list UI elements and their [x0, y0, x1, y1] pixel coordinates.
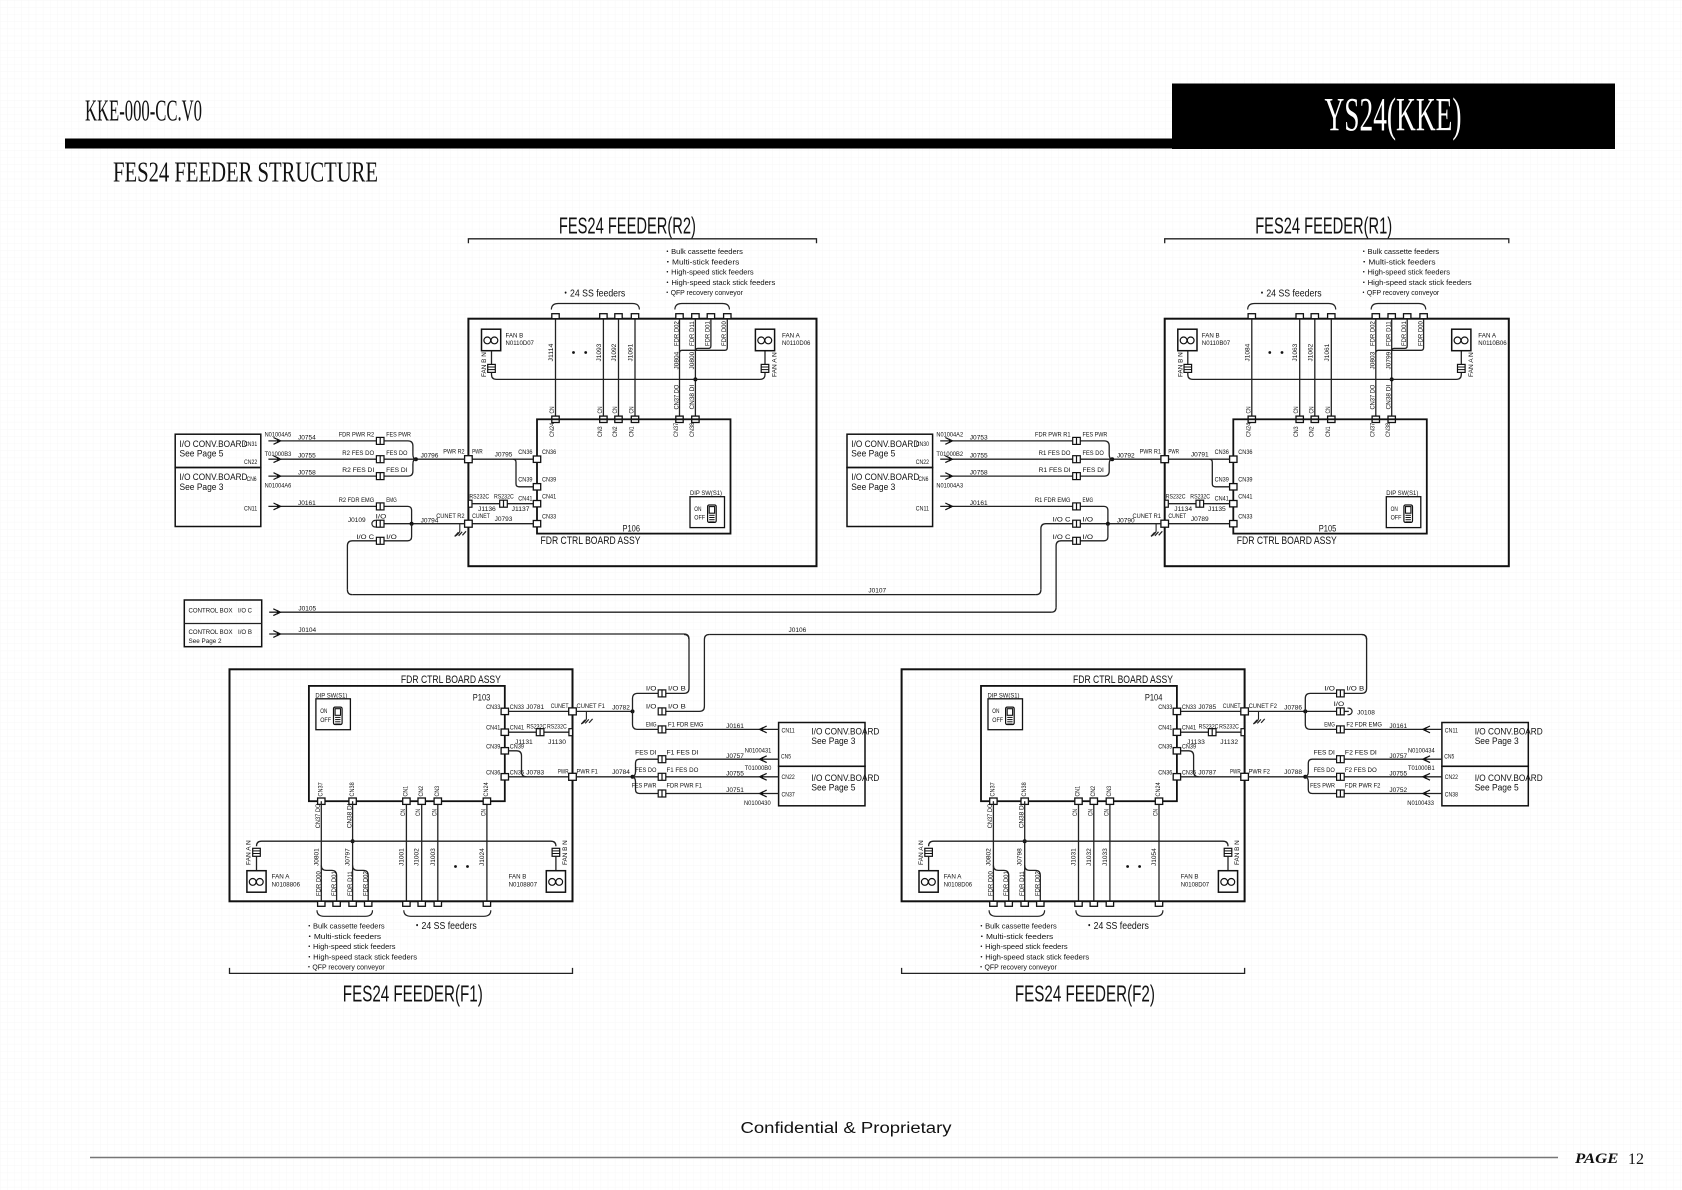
wire CUNET R1: [1073, 523, 1161, 525]
wire J0755 FES DO: [268, 458, 464, 460]
svg-text:R1 FES DO: R1 FES DO: [1039, 450, 1071, 457]
svg-text:I/O C: I/O C: [1053, 534, 1071, 541]
svg-text:CUNET R1: CUNET R1: [1133, 513, 1162, 520]
svg-text:J1135: J1135: [1208, 506, 1226, 513]
svg-text:I/O CONV.BOARD: I/O CONV.BOARD: [180, 472, 248, 482]
wire J0795 PWR to CN36/CN39: [472, 458, 533, 460]
wire CUNET F1 to junction: [576, 710, 632, 712]
wire J0757 FES DI: [633, 759, 779, 777]
svg-text:J1001: J1001: [398, 848, 405, 866]
svg-text:I/O C: I/O C: [238, 608, 252, 615]
svg-text:N01004A6: N01004A6: [265, 482, 292, 489]
wire FDR D01: [695, 319, 711, 351]
svg-text:CN38: CN38: [689, 422, 696, 437]
svg-text:See Page 5: See Page 5: [180, 449, 224, 459]
wire J0751 FES PWR: [633, 777, 779, 794]
svg-text:CN36: CN36: [1158, 769, 1173, 776]
node fan bus joins DI line: [351, 839, 355, 843]
svg-text:CN37: CN37: [1369, 422, 1376, 437]
svg-text:CN37: CN37: [990, 782, 997, 797]
svg-text:See Page 3: See Page 3: [1475, 736, 1519, 746]
wire J0791 PWR to CN36/CN39: [1169, 458, 1230, 460]
svg-text:J0788: J0788: [1284, 769, 1302, 776]
svg-text:CN38: CN38: [1445, 791, 1459, 798]
svg-text:J0795: J0795: [495, 452, 513, 459]
svg-text:CN: CN: [1293, 406, 1300, 413]
svg-text:RS232C: RS232C: [527, 724, 547, 731]
svg-text:FDR PWR F2: FDR PWR F2: [1345, 783, 1381, 790]
svg-text:J1003: J1003: [430, 848, 437, 866]
FDR CTRL BOARD ASSY P106: [537, 419, 731, 533]
brace over SS feeder connectors: [1248, 304, 1336, 310]
svg-text:CN33: CN33: [1158, 704, 1173, 711]
svg-text:RS232C: RS232C: [1190, 493, 1210, 500]
svg-text:J1002: J1002: [414, 848, 421, 866]
brace over SS feeder connectors: [551, 304, 639, 310]
svg-text:FES DO: FES DO: [635, 767, 656, 774]
svg-text:・Bulk cassette feeders: ・Bulk cassette feeders: [978, 922, 1057, 931]
svg-text:CN2: CN2: [612, 426, 619, 437]
wire J0161 FDR EMG: [633, 711, 779, 729]
svg-text:J0751: J0751: [726, 787, 744, 794]
wire J0757 FES DI: [1305, 759, 1442, 777]
feeder block F2 outline: [902, 669, 1245, 901]
svg-text:FES DO: FES DO: [1083, 450, 1104, 457]
node fan bus joins DI line: [1023, 839, 1027, 843]
svg-text:FAN B N: FAN B N: [481, 352, 488, 377]
svg-text:ON: ON: [1391, 506, 1399, 513]
fan B N0108807: [552, 848, 560, 856]
footer rule: [90, 1157, 1558, 1159]
svg-text:CN6: CN6: [247, 476, 257, 483]
svg-text:N0108806: N0108806: [272, 881, 301, 888]
ellipsis dots: [454, 865, 457, 868]
brace over FDR connectors: [1371, 304, 1426, 310]
svg-text:I/O: I/O: [646, 703, 657, 710]
svg-text:CONTROL BOX: CONTROL BOX: [189, 629, 234, 636]
svg-text:CN38: CN38: [1021, 782, 1028, 797]
svg-text:FDR PWR F1: FDR PWR F1: [667, 783, 703, 790]
wire J1091: [634, 319, 636, 420]
I/O CONV.BOARD See Page 3 (R1): [847, 468, 933, 527]
ellipsis dots: [1126, 865, 1129, 868]
svg-text:J0104: J0104: [298, 627, 316, 634]
svg-text:CN1: CN1: [1075, 785, 1082, 796]
svg-text:FAN A N: FAN A N: [246, 840, 253, 865]
svg-text:R1 FES DI: R1 FES DI: [1039, 467, 1071, 474]
wire J1063: [1299, 319, 1301, 420]
svg-text:N0100430: N0100430: [744, 800, 771, 807]
wire J0755 FES DO: [1305, 776, 1442, 778]
wire RS232C J1136/J1137: [468, 500, 472, 507]
svg-text:CUNET: CUNET: [1223, 703, 1241, 710]
svg-text:CN36: CN36: [1238, 449, 1253, 456]
header rule: [65, 139, 1173, 149]
svg-text:CN33: CN33: [486, 704, 501, 711]
svg-text:CN: CN: [597, 406, 604, 413]
brace under FDR connectors: [989, 910, 1045, 916]
wire FDR D00: [1376, 319, 1424, 353]
FDR CTRL BOARD ASSY P104: [981, 686, 1177, 801]
svg-text:J1033: J1033: [1102, 848, 1109, 866]
wire CN39 jog: [1181, 751, 1199, 777]
svg-text:ON: ON: [992, 708, 1000, 715]
svg-text:See Page 5: See Page 5: [811, 782, 855, 792]
svg-text:FDR D00: FDR D00: [1417, 321, 1424, 346]
svg-text:N0108D07: N0108D07: [1181, 881, 1210, 888]
svg-text:12: 12: [1628, 1151, 1644, 1168]
svg-text:J0791: J0791: [1191, 452, 1209, 459]
svg-text:FES PWR: FES PWR: [1310, 783, 1335, 790]
svg-text:CN39: CN39: [1238, 477, 1253, 484]
svg-text:J1093: J1093: [596, 343, 603, 361]
connector CN41: [1230, 501, 1237, 507]
svg-text:CN41: CN41: [1182, 725, 1197, 732]
svg-text:F2 FDR EMG: F2 FDR EMG: [1346, 721, 1382, 728]
connector CN36: [501, 774, 508, 780]
wire J0755 FES DO: [633, 776, 779, 778]
I/O CONV.BOARD See Page 3 (F2): [1442, 723, 1528, 767]
svg-text:CN41: CN41: [1238, 494, 1253, 501]
svg-text:J0786: J0786: [1284, 705, 1302, 712]
svg-text:FES DI: FES DI: [1083, 467, 1105, 474]
svg-text:FDR D00: FDR D00: [316, 871, 323, 896]
svg-text:I/O CONV.BOARD: I/O CONV.BOARD: [180, 439, 248, 449]
svg-text:J0161: J0161: [970, 500, 988, 507]
svg-text:CN38: CN38: [1385, 422, 1392, 437]
svg-text:J1136: J1136: [478, 506, 496, 513]
svg-text:J0107: J0107: [868, 587, 886, 594]
I/O CONV.BOARD See Page 5 (F2): [1442, 766, 1528, 806]
svg-text:CN24: CN24: [483, 782, 490, 797]
connector FDR D00: [990, 901, 997, 906]
svg-text:FES PWR: FES PWR: [1083, 432, 1108, 439]
connector CN3: [600, 416, 607, 422]
svg-text:OFF: OFF: [1391, 515, 1402, 522]
svg-text:FDR CTRL BOARD ASSY: FDR CTRL BOARD ASSY: [541, 535, 642, 547]
wire I/O B to J0106 bus: [1305, 635, 1366, 712]
connector CN41: [1173, 729, 1180, 735]
svg-text:RS232C: RS232C: [1219, 724, 1239, 731]
svg-text:FES24 FEEDER STRUCTURE: FES24 FEEDER STRUCTURE: [113, 158, 378, 189]
brace under SS feeder connectors: [1076, 910, 1163, 916]
svg-text:I/O B: I/O B: [668, 703, 686, 710]
I/O CONV.BOARD See Page 5 (R2): [175, 434, 261, 467]
svg-text:CONTROL BOX: CONTROL BOX: [189, 608, 234, 615]
svg-text:CN3: CN3: [1106, 785, 1113, 796]
connector CUNET R2 (edge): [465, 520, 473, 527]
connector CN24: [552, 416, 559, 422]
svg-text:CN22: CN22: [916, 459, 930, 466]
svg-text:FES DI: FES DI: [386, 467, 408, 474]
svg-text:CN: CN: [431, 809, 438, 816]
connector CN39: [533, 484, 540, 490]
svg-text:FAN B: FAN B: [509, 874, 527, 881]
svg-text:J0752: J0752: [1389, 787, 1407, 794]
svg-text:CN33: CN33: [1182, 704, 1197, 711]
svg-text:CUNET: CUNET: [551, 703, 569, 710]
node J0788 junction: [1303, 775, 1307, 779]
svg-text:CN38: CN38: [349, 782, 356, 797]
svg-text:J0804: J0804: [673, 351, 680, 369]
svg-text:N01004A2: N01004A2: [936, 432, 963, 439]
svg-text:T01000B2: T01000B2: [936, 451, 963, 458]
wire J0758 FES DI: [268, 475, 376, 477]
svg-text:CN: CN: [1087, 809, 1094, 816]
I/O CONV.BOARD See Page 3 (F1): [779, 723, 865, 767]
connector CN37 DO: [676, 416, 683, 422]
svg-text:CN22: CN22: [1445, 774, 1459, 781]
svg-text:J0161: J0161: [298, 500, 316, 507]
svg-text:CN1: CN1: [403, 785, 410, 796]
svg-text:FES24 FEEDER(F1): FES24 FEEDER(F1): [343, 981, 483, 1007]
bracket under block: [230, 968, 573, 974]
svg-text:FDR D11: FDR D11: [347, 871, 354, 896]
svg-text:N01004A3: N01004A3: [936, 482, 963, 489]
svg-text:CN: CN: [1245, 406, 1252, 413]
svg-text:I/O: I/O: [1324, 685, 1335, 692]
svg-text:R2 FES DI: R2 FES DI: [342, 467, 374, 474]
connector CUNET F2 (edge): [1241, 708, 1249, 715]
svg-text:J1032: J1032: [1086, 848, 1093, 866]
svg-text:J1137: J1137: [512, 506, 530, 513]
svg-text:FDR D11: FDR D11: [1386, 321, 1393, 346]
connector CN37 DO: [1372, 416, 1379, 422]
wire J1093: [602, 319, 604, 420]
connector CUNET R1 (edge): [1161, 520, 1169, 527]
svg-text:FES DO: FES DO: [386, 450, 407, 457]
wire J0781 CN33 to CUNET: [509, 710, 569, 712]
wire J0787 CN36 to PWR: [1181, 776, 1241, 778]
node J0796: [414, 457, 418, 461]
svg-text:FAN B: FAN B: [506, 333, 524, 340]
svg-text:・High-speed stick feeders: ・High-speed stick feeders: [978, 942, 1068, 951]
wire J0753 FDR PWR: [940, 440, 1072, 442]
wire I/O C to J0107 bus: [347, 524, 411, 590]
wire fan bus: [1188, 372, 1462, 379]
fan B N0110B07: [1178, 329, 1197, 351]
svg-text:CUNET: CUNET: [1168, 513, 1186, 520]
connector FDR D11: [1021, 901, 1028, 906]
svg-text:J0757: J0757: [1389, 753, 1407, 760]
svg-text:J0803: J0803: [1370, 351, 1377, 369]
svg-text:PWR: PWR: [1168, 448, 1179, 455]
svg-text:J0787: J0787: [1198, 769, 1216, 776]
svg-text:P103: P103: [473, 692, 491, 702]
svg-text:・Multi-stick feeders: ・Multi-stick feeders: [978, 932, 1054, 941]
node J0792: [1110, 457, 1114, 461]
wire I/O B (1) to J0104 bus: [633, 635, 690, 712]
wire J0783 CN36 to PWR: [509, 776, 569, 778]
svg-text:FES PWR: FES PWR: [632, 783, 657, 790]
wire J0107 (R2 I/O C to R1 I/O C): [352, 594, 1036, 596]
ground: [459, 524, 461, 532]
svg-text:R1 FDR EMG: R1 FDR EMG: [1035, 497, 1071, 504]
svg-text:CN38 DI: CN38 DI: [689, 384, 696, 409]
svg-text:FAN A: FAN A: [1478, 333, 1497, 340]
svg-text:CN37 DO: CN37 DO: [1370, 385, 1377, 410]
svg-text:CN: CN: [400, 809, 407, 816]
wire J1002: [421, 801, 423, 901]
svg-text:CN30: CN30: [916, 441, 930, 448]
svg-text:J1061: J1061: [1324, 343, 1331, 361]
wire J0758 FES DI: [940, 475, 1072, 477]
svg-text:EMG: EMG: [386, 497, 397, 504]
svg-text:RS232C: RS232C: [494, 493, 514, 500]
svg-text:CN31: CN31: [244, 441, 258, 448]
svg-text:J0794: J0794: [421, 517, 439, 524]
svg-text:See Page 3: See Page 3: [811, 736, 855, 746]
connector CN36: [533, 456, 540, 462]
wire J1003: [437, 801, 439, 901]
connector CN38 DI: [692, 416, 699, 422]
svg-text:CN37: CN37: [318, 782, 325, 797]
svg-text:EMG: EMG: [646, 721, 657, 728]
svg-text:J0802: J0802: [985, 848, 992, 866]
svg-text:DIP SW(S1): DIP SW(S1): [690, 490, 722, 497]
wire J1092: [618, 319, 620, 420]
svg-text:J1130: J1130: [548, 739, 566, 746]
svg-text:CN6: CN6: [918, 476, 928, 483]
svg-text:J1024: J1024: [479, 848, 486, 866]
svg-text:CN2: CN2: [1308, 426, 1315, 437]
svg-text:CUNET F2: CUNET F2: [1249, 703, 1278, 710]
svg-text:FDR PWR R1: FDR PWR R1: [1035, 432, 1071, 439]
svg-text:J0799: J0799: [1386, 351, 1393, 369]
svg-text:FDR D11: FDR D11: [689, 321, 696, 346]
wire J1001: [405, 801, 407, 901]
feeder block R2 outline: [468, 319, 816, 567]
wire J0104 (CONTROL BOX I/O B to F1): [269, 633, 684, 635]
svg-text:FES24 FEEDER(R1): FES24 FEEDER(R1): [1255, 213, 1392, 239]
connector PWR F2 (edge): [1241, 773, 1249, 780]
svg-text:I/O: I/O: [1334, 701, 1345, 708]
svg-text:I/O B: I/O B: [1346, 685, 1364, 692]
svg-text:FDR D00: FDR D00: [721, 321, 728, 346]
svg-text:J1063: J1063: [1292, 343, 1299, 361]
svg-text:CN2: CN2: [418, 785, 425, 796]
svg-text:・QFP recovery conveyor: ・QFP recovery conveyor: [978, 963, 1058, 972]
svg-text:FDR CTRL BOARD ASSY: FDR CTRL BOARD ASSY: [1237, 535, 1338, 547]
svg-text:FAN A: FAN A: [944, 874, 963, 881]
svg-text:J0783: J0783: [526, 769, 544, 776]
svg-text:FES DI: FES DI: [1314, 750, 1336, 757]
svg-text:CN: CN: [612, 406, 619, 413]
svg-text:J0757: J0757: [726, 753, 744, 760]
svg-text:CN2: CN2: [1090, 785, 1097, 796]
svg-text:・24 SS feeders: ・24 SS feeders: [561, 289, 625, 300]
connector CN33: [1230, 521, 1237, 527]
svg-text:RS232C: RS232C: [547, 724, 567, 731]
wire J0161 FDR EMG: [268, 505, 376, 507]
svg-text:・High-speed stack stick feeder: ・High-speed stack stick feeders: [664, 278, 776, 287]
svg-text:P105: P105: [1319, 524, 1337, 534]
fan A N0110B06: [1458, 364, 1466, 372]
plug J0108: [1344, 710, 1349, 712]
svg-text:J0781: J0781: [526, 704, 544, 711]
svg-text:I/O: I/O: [1083, 534, 1094, 541]
svg-text:CN33: CN33: [510, 704, 525, 711]
svg-text:CN37: CN37: [673, 422, 680, 437]
svg-text:CN41: CN41: [1215, 496, 1230, 503]
svg-text:CN39: CN39: [1158, 743, 1173, 750]
svg-text:CN41: CN41: [486, 725, 501, 732]
svg-text:PWR R2: PWR R2: [443, 448, 465, 455]
svg-text:I/O: I/O: [646, 685, 657, 692]
svg-text:J0755: J0755: [1389, 770, 1407, 777]
fan B N connector: [491, 351, 493, 365]
svg-text:PWR: PWR: [1230, 768, 1241, 775]
svg-text:CN: CN: [1103, 809, 1110, 816]
connector CN3: [1296, 416, 1303, 422]
svg-text:PWR: PWR: [472, 448, 483, 455]
wire FDR D11 / J0799: [1391, 319, 1393, 420]
connector CN39: [501, 748, 508, 754]
feeder block R1 outline: [1165, 319, 1509, 567]
svg-text:FDR D01: FDR D01: [1003, 871, 1010, 896]
brace under SS feeder connectors: [404, 910, 491, 916]
node fan bus joins DI line: [1390, 377, 1394, 381]
wire PWR F2 to junction: [1248, 776, 1305, 778]
connector CN38 DI: [1388, 416, 1395, 422]
svg-text:N01004A5: N01004A5: [265, 432, 292, 439]
svg-text:CN1: CN1: [1325, 426, 1332, 437]
svg-text:RS232C: RS232C: [1199, 724, 1219, 731]
svg-text:EMG: EMG: [1324, 721, 1335, 728]
svg-text:See Page 2: See Page 2: [189, 638, 222, 645]
svg-text:・High-speed stick feeders: ・High-speed stick feeders: [306, 942, 396, 951]
svg-text:CN22: CN22: [244, 459, 258, 466]
svg-text:CN38 DI: CN38 DI: [1386, 384, 1393, 409]
node CUNET junction: [631, 709, 635, 713]
CONTROL BOX: [184, 600, 261, 647]
svg-text:CN3: CN3: [597, 426, 604, 437]
svg-text:J0755: J0755: [726, 770, 744, 777]
connector CN33: [533, 521, 540, 527]
svg-text:FDR D02: FDR D02: [673, 321, 680, 346]
svg-text:・Multi-stick feeders: ・Multi-stick feeders: [1360, 257, 1436, 266]
connector FDR D02: [1037, 901, 1044, 906]
svg-text:FAN B N: FAN B N: [1234, 840, 1241, 865]
svg-text:CN24: CN24: [1155, 782, 1162, 797]
svg-text:I/O C: I/O C: [356, 534, 374, 541]
svg-text:I/O: I/O: [376, 514, 387, 521]
svg-text:FAN B N: FAN B N: [562, 840, 569, 865]
svg-text:CN41: CN41: [1158, 725, 1173, 732]
svg-text:J0109: J0109: [348, 517, 366, 524]
svg-text:・24 SS feeders: ・24 SS feeders: [413, 921, 477, 932]
svg-text:N0110B06: N0110B06: [1478, 340, 1507, 347]
svg-text:・24 SS feeders: ・24 SS feeders: [1085, 921, 1149, 932]
svg-text:CUNET F1: CUNET F1: [577, 703, 606, 710]
svg-text:CN: CN: [480, 809, 487, 816]
svg-text:N0100434: N0100434: [1408, 747, 1435, 754]
svg-text:J0782: J0782: [612, 705, 630, 712]
svg-text:J0758: J0758: [970, 470, 988, 477]
connector CN2: [615, 416, 622, 422]
svg-text:CN3: CN3: [434, 785, 441, 796]
svg-text:F1 FES DO: F1 FES DO: [667, 767, 699, 774]
svg-text:J0755: J0755: [970, 453, 988, 460]
wire J1062: [1314, 319, 1316, 420]
svg-text:・High-speed stack stick feeder: ・High-speed stack stick feeders: [978, 952, 1090, 961]
svg-text:FDR D02: FDR D02: [1370, 321, 1377, 346]
wire J1033: [1109, 801, 1111, 901]
svg-text:P106: P106: [623, 524, 641, 534]
wire J0785 CN33 to CUNET: [1181, 710, 1241, 712]
connector CN1: [631, 416, 638, 422]
bracket under block: [902, 968, 1245, 974]
